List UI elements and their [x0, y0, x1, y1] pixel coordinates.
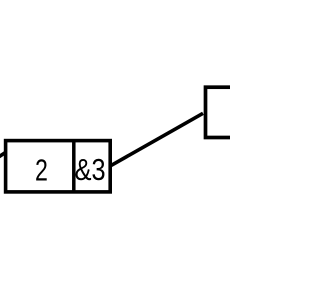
svg-text:2: 2	[35, 152, 48, 187]
wire: incoming pointer stub from off-canvas left	[0, 153, 5, 160]
node box: list node with data and pointer cells	[6, 141, 111, 192]
node box: next node (partially off-canvas right)	[206, 87, 251, 137]
divider between data cell and pointer cell	[72, 141, 76, 192]
wire: pointer line to next node	[111, 113, 204, 165]
svg-text:&3: &3	[75, 153, 106, 187]
